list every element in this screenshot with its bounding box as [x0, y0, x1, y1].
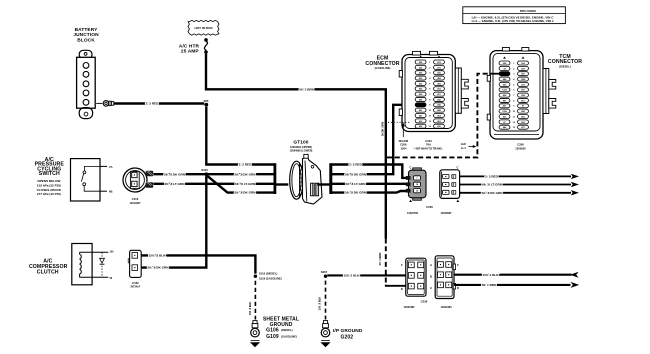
- svg-text:C: C: [456, 166, 458, 170]
- svg-text:(GASOLINE): (GASOLINE): [281, 335, 297, 339]
- label C206 1203605 under TCM: [515, 143, 526, 151]
- svg-text:59: .8 DK GRN: 59: .8 DK GRN: [164, 172, 186, 176]
- wire battery feed 2 RED: [114, 102, 204, 104]
- svg-text:* 4SP W/AUTO TRANS.: * 4SP W/AUTO TRANS.: [414, 146, 443, 150]
- svg-text:59: .8 DK GRN: 59: .8 DK GRN: [148, 266, 170, 270]
- svg-text:OPENS BELOW: OPENS BELOW: [37, 179, 60, 183]
- wire 59 DK GRN up to ECM pin: [332, 105, 417, 174]
- svg-text:A: A: [430, 263, 432, 267]
- wire fuse output 50 BRN across top: [206, 54, 386, 239]
- wire 66 LT GRN from C116: [153, 183, 274, 185]
- connector C226 male half: [401, 258, 426, 296]
- svg-text:150: 150: [110, 250, 115, 253]
- svg-text:2: 3 RED: 2: 3 RED: [239, 163, 252, 167]
- svg-text:150: 2 BLK: 150: 2 BLK: [344, 274, 361, 278]
- svg-text:G109: G109: [266, 334, 279, 340]
- label I/P GROUND G202: [333, 328, 363, 341]
- svg-text:C116: C116: [132, 197, 139, 201]
- wire 150 BLK from clutch to ground: [142, 255, 256, 273]
- svg-text:50: 1 BRN: 50: 1 BRN: [299, 87, 314, 91]
- svg-text:59 DK GRN: 59 DK GRN: [380, 122, 384, 136]
- hot in run box: [188, 20, 219, 35]
- wire bundle into grommet (left stub): [276, 183, 288, 185]
- label SHEET METAL GROUND G106 G109: [263, 316, 299, 340]
- connector C116 (round, 2-pin): [123, 168, 153, 205]
- RPO codes legend box: [463, 7, 566, 24]
- svg-text:G202: G202: [341, 335, 354, 341]
- svg-text:12064994 (UPPER): 12064994 (UPPER): [290, 146, 312, 149]
- svg-text:25 AMP: 25 AMP: [181, 49, 199, 55]
- connector C162 (2-pin): [128, 250, 141, 288]
- A/C pressure cycling switch: [35, 157, 113, 201]
- wire dashed ground lead to G106: [254, 281, 256, 320]
- svg-text:59: .8 DK GRN: 59: .8 DK GRN: [482, 191, 504, 195]
- ring terminal on battery feed wire: [96, 101, 114, 107]
- wire vertical 59 DK GRN from S100 down to clutch: [142, 176, 207, 268]
- svg-text:HOT IN RUN: HOT IN RUN: [194, 26, 213, 30]
- svg-text:GT100: GT100: [293, 140, 308, 146]
- svg-text:SWITCH: SWITCH: [39, 171, 60, 177]
- svg-text:BATTERY: BATTERY: [75, 27, 99, 33]
- svg-text:6B: 6B: [109, 190, 113, 194]
- svg-text:S100: S100: [201, 168, 208, 172]
- svg-text:2: 3 RED: 2: 3 RED: [146, 102, 159, 106]
- svg-text:B: B: [430, 275, 432, 279]
- svg-text:59: .8 DK GRN: 59: .8 DK GRN: [235, 172, 257, 176]
- svg-text:F: F: [401, 263, 403, 267]
- wire 66 LT GRN to C500 pin B: [332, 183, 415, 185]
- svg-text:C206: C206: [400, 143, 407, 147]
- wire 150 BLK output from C226 (arrow points back left): [454, 272, 579, 278]
- svg-text:7A: 7A: [109, 165, 113, 169]
- svg-text:152 kPa (22 PSI): 152 kPa (22 PSI): [37, 184, 61, 188]
- svg-text:LH6: LH6: [461, 142, 467, 146]
- svg-text:G106: G106: [266, 327, 279, 333]
- battery junction block: [73, 27, 99, 119]
- svg-text:CLUTCH: CLUTCH: [37, 270, 59, 276]
- svg-text:(DIESEL): (DIESEL): [281, 328, 293, 332]
- svg-text:12020687: 12020687: [440, 212, 452, 215]
- svg-text:S65: S65: [204, 99, 209, 103]
- node S100 junction dot: [201, 168, 208, 176]
- A/C compressor clutch: [29, 244, 114, 285]
- label W/ACM C206 1204 under ECM: [399, 139, 409, 151]
- svg-text:CONNECTOR: CONNECTOR: [548, 59, 582, 65]
- svg-text:D: D: [457, 286, 459, 290]
- svg-text:50: 1 BRN: 50: 1 BRN: [378, 253, 382, 266]
- svg-text:66: .8 LT GRN: 66: .8 LT GRN: [164, 182, 185, 186]
- wire 59 BRN output from C226: [454, 282, 579, 288]
- node S267 splice dot: [321, 270, 328, 278]
- callout leader to ECM (dotted) with arrow: [388, 122, 411, 137]
- wire dashed diesel section of circuit 50 down to C226: [385, 239, 387, 286]
- svg-text:150 .8 BLK: 150 .8 BLK: [318, 297, 322, 311]
- connector C500 female half: [440, 166, 460, 202]
- svg-text:66: .8 LT GRN: 66: .8 LT GRN: [482, 183, 503, 187]
- svg-text:1204: 1204: [401, 146, 407, 150]
- svg-text:12020786: 12020786: [407, 212, 419, 215]
- svg-text:C226: C226: [421, 300, 428, 304]
- wire diagonal 59 DK GRN branch from S100: [207, 176, 274, 193]
- svg-text:C206: C206: [517, 143, 524, 147]
- svg-text:12014937: 12014937: [129, 202, 141, 205]
- harness bundle bracket left of GT100: [273, 163, 276, 194]
- wire 150 BLK from S267 to C226: [327, 274, 406, 276]
- wire 2 RED to C500 pin A: [332, 165, 415, 178]
- svg-text:JUNCTION: JUNCTION: [73, 32, 99, 38]
- ECM connector (gasoline): [365, 51, 468, 131]
- svg-text:A/C HTR: A/C HTR: [179, 43, 200, 49]
- node S116 splice dot: [254, 272, 282, 281]
- svg-text:INT24LP: INT24LP: [131, 286, 141, 289]
- svg-text:277 kPa (40 PSI): 277 kPa (40 PSI): [37, 192, 61, 196]
- svg-text:S267: S267: [321, 270, 328, 274]
- wire dashed ground lead to G202: [325, 281, 327, 320]
- ground G202 ring terminal and ground symbol: [320, 321, 330, 348]
- svg-text:I/P GROUND: I/P GROUND: [333, 328, 363, 334]
- svg-text:S119 (GASOLINE): S119 (GASOLINE): [259, 277, 282, 281]
- ground G106 ring terminal and ground symbol: [250, 321, 260, 348]
- grommet GT100: [290, 140, 322, 204]
- svg-text:59: .8 DK GRN: 59: .8 DK GRN: [345, 191, 367, 195]
- svg-text:150: 2 BLK: 150: 2 BLK: [483, 273, 500, 277]
- svg-text:RPO CODES: RPO CODES: [520, 9, 536, 13]
- wire dashed diesel option branch to TCM: [387, 74, 490, 158]
- svg-text:(DIESEL): (DIESEL): [559, 64, 571, 68]
- svg-text:150 .8 BLK: 150 .8 BLK: [248, 302, 252, 316]
- svg-text:C: C: [410, 166, 412, 170]
- svg-text:LL4 — ENGINE, 6.3L (379 CID) V: LL4 — ENGINE, 6.3L (379 CID) V8 DIESEL E…: [472, 19, 554, 23]
- svg-text:12034483: 12034483: [440, 306, 452, 309]
- svg-text:D: D: [401, 287, 403, 291]
- svg-text:C500: C500: [426, 205, 433, 209]
- fuse A/C HTR 25 AMP: [179, 38, 208, 54]
- svg-text:(GASOLINE): (GASOLINE): [375, 66, 391, 70]
- connector C500 male half: [406, 166, 426, 202]
- svg-text:LL4: LL4: [461, 146, 466, 150]
- svg-text:59: 1 BRN: 59: 1 BRN: [482, 283, 497, 287]
- label C234 76A 4SP W/AUTO TRANS under ECM: [414, 139, 443, 151]
- wire 59 DK GRN output: [460, 190, 579, 195]
- svg-text:59: .8 DK GRN: 59: .8 DK GRN: [235, 191, 257, 195]
- svg-text:S116 (DIESEL): S116 (DIESEL): [259, 272, 277, 276]
- connector C226 female half: [430, 256, 459, 299]
- svg-text:C162: C162: [132, 281, 139, 285]
- wire 66 LT GRN output: [460, 182, 579, 187]
- svg-text:12034482: 12034482: [403, 306, 415, 309]
- svg-text:1203605: 1203605: [515, 146, 526, 150]
- svg-text:C234: C234: [425, 139, 432, 143]
- svg-text:12064995 (LOWER): 12064995 (LOWER): [290, 150, 313, 153]
- wire 59 DK GRN from C116 to S100: [153, 173, 274, 175]
- svg-text:59: .8 DK GRN: 59: .8 DK GRN: [345, 172, 367, 176]
- svg-text:F: F: [457, 263, 459, 267]
- node S65 junction dot: [204, 99, 209, 107]
- svg-text:66: .8 LT GRN: 66: .8 LT GRN: [235, 182, 256, 186]
- svg-text:W/ACM: W/ACM: [399, 139, 409, 143]
- wire 2 RED output to engine harness: [460, 174, 579, 179]
- TCM connector (diesel): [487, 48, 582, 140]
- svg-text:BLOCK: BLOCK: [77, 37, 95, 43]
- wire vertical RED feed down from S65: [206, 107, 274, 165]
- wire bundle out of grommet (right stub): [318, 183, 330, 185]
- label LH6 LL4 callout with arrow: [461, 142, 477, 150]
- svg-text:58: 58: [109, 277, 112, 280]
- wire 59 DK GRN to C500 pin C: [332, 191, 415, 193]
- svg-text:66: .8 LT GRN: 66: .8 LT GRN: [345, 182, 366, 186]
- harness bundle bracket right of GT100: [329, 163, 332, 194]
- svg-text:2: 3 RED: 2: 3 RED: [485, 175, 498, 179]
- svg-text:76A: 76A: [426, 143, 431, 147]
- svg-text:C: C: [430, 286, 432, 290]
- svg-text:2: 3 RED: 2: 3 RED: [349, 163, 362, 167]
- svg-text:150: .8 BLK: 150: .8 BLK: [149, 254, 167, 258]
